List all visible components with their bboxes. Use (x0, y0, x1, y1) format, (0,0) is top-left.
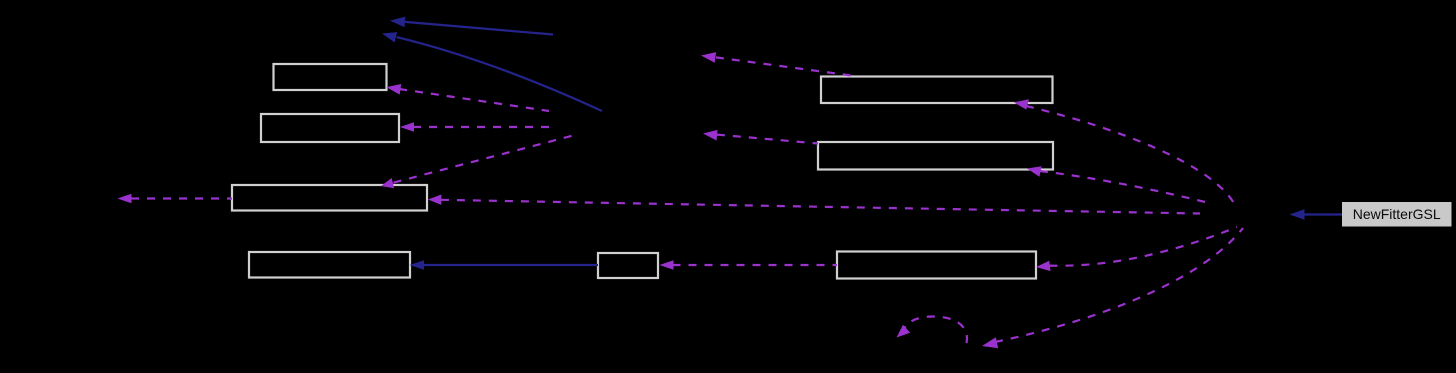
purple usage edge P2 (into box B) (400, 122, 551, 132)
purple usage edge P11 (invisible BaseFitter to box G bottom) (1027, 166, 1205, 202)
node NewFitterGSL (gray, labelled) (1342, 202, 1452, 227)
node box B (261, 114, 399, 142)
purple usage edge P10 (invisible BaseFitter to box F bottom) (1014, 99, 1236, 207)
node box E (small middle) (598, 253, 658, 278)
node box A (top-left) (274, 64, 387, 90)
blue inheritance edge L2 (curved, to invisible top-left node) (382, 32, 602, 111)
node box C (232, 185, 427, 211)
node box D (249, 252, 410, 278)
blue inheritance edge L1 (to invisible top-left node) (390, 17, 553, 35)
purple self-loop on invisible bottom node (897, 317, 968, 344)
purple usage edge P4 (long horizontal, invisible node to box C right) (428, 195, 1200, 214)
blue inheritance edge L4 (box E to box D) (410, 260, 599, 270)
node box F (top-right) (821, 77, 1053, 104)
blue inheritance edge L3 (NewFitterGSL to invisible BaseFitter node) (1290, 209, 1343, 220)
purple usage edge P8 (box F to invisible mid node) (701, 52, 851, 75)
purple usage edge P6 (invisible BaseFitter to box H right) (1036, 227, 1237, 271)
purple usage edge P1 (into box A) (386, 84, 549, 111)
purple usage edge P3 (into box C top) (381, 135, 575, 188)
svg-text:NewFitterGSL: NewFitterGSL (1353, 206, 1441, 222)
node box G (818, 142, 1053, 170)
purple usage edge P5 (box C to far left) (118, 194, 233, 204)
purple usage edge P7 (box H to box E) (660, 260, 838, 270)
purple usage edge P9 (box G to invisible mid node) (703, 130, 818, 144)
node box H (837, 252, 1036, 279)
purple usage edge P12 (invisible BaseFitter to invisible bottom node) (982, 228, 1243, 348)
